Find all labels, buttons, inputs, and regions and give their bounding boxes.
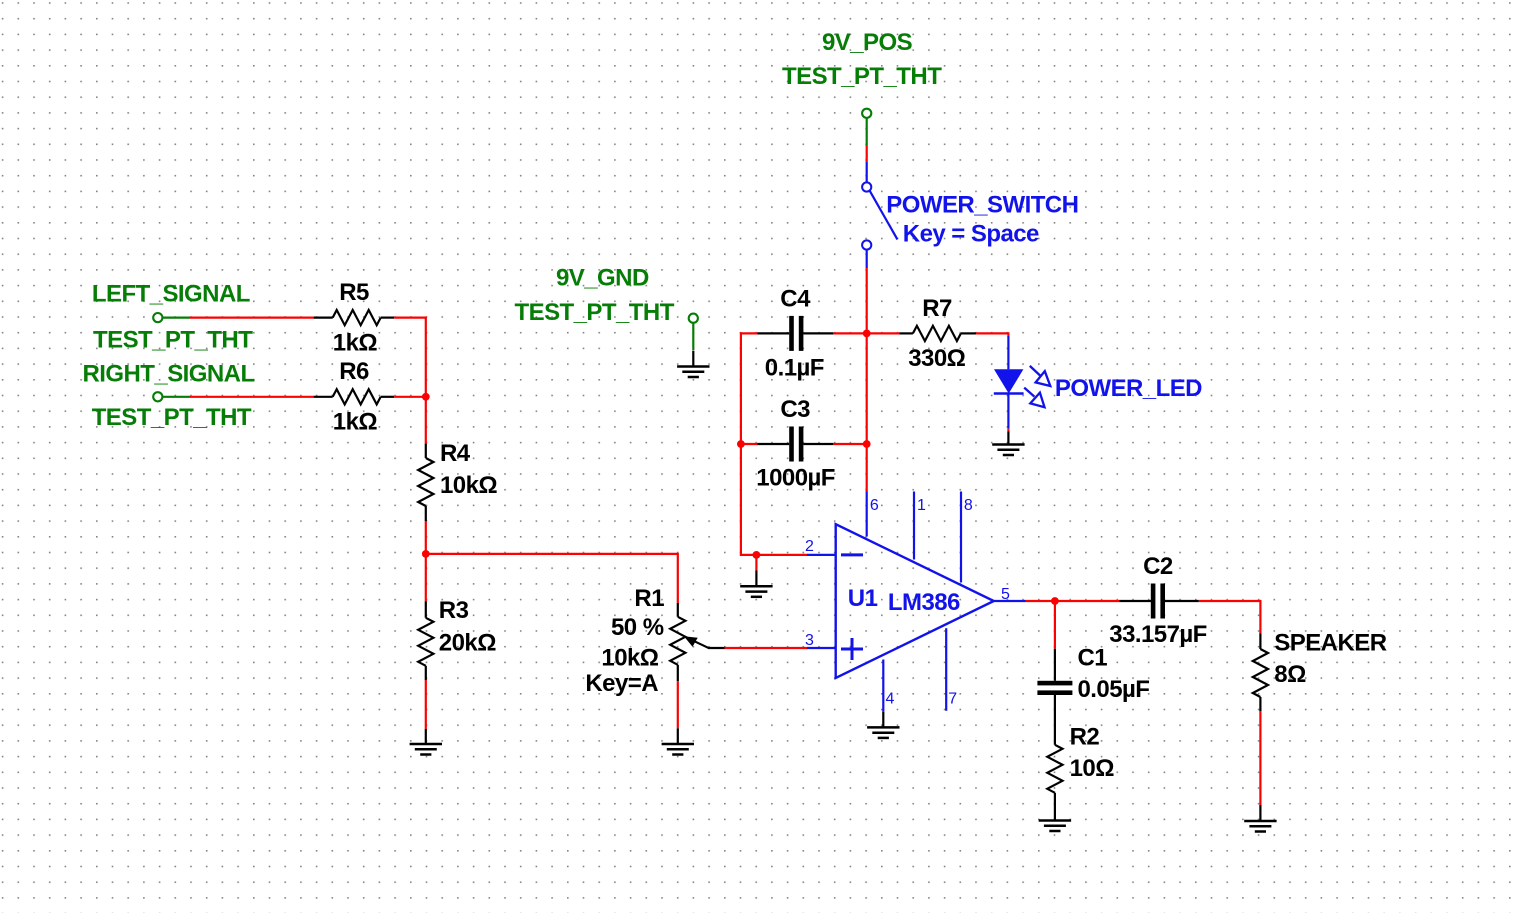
svg-text:POWER_LED: POWER_LED xyxy=(1055,375,1202,402)
label R2 xyxy=(1070,724,1100,751)
wire R5 to node A xyxy=(394,317,426,397)
ground (pin2 net) xyxy=(740,571,772,597)
potentiometer R1 xyxy=(670,603,685,681)
capacitor C4 xyxy=(741,316,867,351)
value 1kohm (R6) xyxy=(333,408,378,435)
svg-text:Key = Space: Key = Space xyxy=(903,221,1039,248)
svg-text:0.05µF: 0.05µF xyxy=(1078,676,1150,703)
ground (R3) xyxy=(410,729,442,755)
value 20kohm (R3) xyxy=(439,630,496,657)
value 10ohm (R2) xyxy=(1070,755,1115,782)
pin number 3 xyxy=(805,632,814,649)
label POWER_LED xyxy=(1055,375,1202,402)
svg-text:C4: C4 xyxy=(780,286,811,313)
pin number 7 xyxy=(948,691,957,708)
R1 wiper arrow xyxy=(684,636,725,648)
wire node B to R3 xyxy=(425,554,427,602)
svg-text:Key=A: Key=A xyxy=(585,670,658,697)
svg-text:LM386: LM386 xyxy=(888,589,960,616)
value 10kohm (R1) xyxy=(601,645,658,672)
svg-text:0.1µF: 0.1µF xyxy=(765,355,824,382)
junction pin2 ground tap xyxy=(753,551,761,559)
resistor R2 xyxy=(1047,745,1062,806)
wire LED to ground xyxy=(1007,429,1009,432)
ground (R2) xyxy=(1039,806,1071,831)
wire R3 to ground xyxy=(425,680,427,729)
svg-text:R4: R4 xyxy=(440,440,471,467)
switch POWER_SWITCH (SPST) xyxy=(862,162,897,268)
label R1 xyxy=(634,585,664,612)
ground (op-amp pin 4) xyxy=(867,712,899,738)
op-amp pin 8 lead (NC) xyxy=(960,492,962,583)
wire LEFT_SIGNAL to R5 xyxy=(190,317,314,319)
svg-text:10kΩ: 10kΩ xyxy=(440,472,497,499)
svg-text:POWER_SWITCH: POWER_SWITCH xyxy=(886,192,1078,219)
svg-text:SPEAKER: SPEAKER xyxy=(1274,630,1386,657)
label C3 xyxy=(780,396,810,423)
ground (9V_GND) xyxy=(677,351,709,377)
op-amp minus input marker xyxy=(841,553,863,556)
junction C3 right node xyxy=(863,440,871,448)
wire V+ node to R7 xyxy=(867,332,900,334)
svg-text:33.157µF: 33.157µF xyxy=(1109,621,1207,648)
wire pin5 to output node xyxy=(1026,600,1055,602)
ground (speaker) xyxy=(1244,805,1276,832)
label R3 xyxy=(439,597,469,624)
label R5 xyxy=(339,279,369,306)
svg-text:R5: R5 xyxy=(339,279,369,306)
label 9V_POS xyxy=(822,29,913,56)
pin number 5 xyxy=(1001,586,1010,603)
op-amp pin 1 lead (NC) xyxy=(913,492,915,560)
wire output node to C1 xyxy=(1054,601,1056,649)
label TEST_PT_THT (left) xyxy=(93,327,253,354)
label R7 xyxy=(922,295,952,322)
LED light arrow 2 xyxy=(1024,388,1044,408)
svg-text:C3: C3 xyxy=(780,396,810,423)
value 0.05uF xyxy=(1078,676,1150,703)
resistor R4 xyxy=(418,444,433,521)
svg-text:R7: R7 xyxy=(922,295,952,322)
label Key=A xyxy=(585,670,658,697)
label C4 xyxy=(780,286,811,313)
value 10kohm (R4) xyxy=(440,472,497,499)
svg-text:1kΩ: 1kΩ xyxy=(333,329,378,356)
junction V+ / C4 node xyxy=(863,330,871,338)
capacitor C1 xyxy=(1037,649,1072,745)
op-amp pin 4 lead xyxy=(882,660,884,712)
op-amp pin 7 lead (NC) xyxy=(945,628,947,711)
wire C-branch to opamp pin2 xyxy=(741,554,807,556)
wire testpoint to switch xyxy=(866,145,868,162)
op-amp pin 6 lead xyxy=(866,492,868,537)
value 1kohm (R5) xyxy=(333,329,378,356)
svg-text:20kΩ: 20kΩ xyxy=(439,630,496,657)
wire R7 to LED xyxy=(976,332,1008,336)
resistor R6 xyxy=(314,389,395,404)
wire R6 to node A xyxy=(394,396,426,398)
svg-text:9V_GND: 9V_GND xyxy=(556,264,649,291)
pin number 1 xyxy=(917,497,926,514)
wire RIGHT_SIGNAL to R6 xyxy=(190,396,314,398)
op-amp pin 3 lead xyxy=(807,647,836,649)
value 0.1uF xyxy=(765,355,824,382)
svg-text:8: 8 xyxy=(964,497,973,514)
test point 9V_GND (TP, green) xyxy=(689,314,698,350)
wire node B to R1 top xyxy=(426,553,678,603)
capacitor C2 xyxy=(1055,584,1261,619)
value 33.157uF xyxy=(1109,621,1207,648)
svg-text:1000µF: 1000µF xyxy=(756,465,835,492)
resistor R7 xyxy=(899,326,976,341)
wire R1 bottom to ground xyxy=(677,681,679,728)
pin number 6 xyxy=(870,497,879,514)
op-amp plus input marker xyxy=(841,638,863,660)
svg-text:TEST_PT_THT: TEST_PT_THT xyxy=(92,404,252,431)
svg-text:R3: R3 xyxy=(439,597,469,624)
resistor SPEAKER xyxy=(1253,634,1268,712)
wire R4 to node B xyxy=(425,521,427,554)
svg-text:2: 2 xyxy=(805,538,814,555)
ground (LED) xyxy=(992,432,1024,456)
wire C2 to speaker xyxy=(1259,600,1261,634)
wire switch to V+ node xyxy=(866,268,868,333)
svg-text:R6: R6 xyxy=(339,358,369,385)
svg-text:10kΩ: 10kΩ xyxy=(601,645,658,672)
capacitor C3 xyxy=(741,427,867,462)
label C1 xyxy=(1078,645,1108,672)
svg-text:C2: C2 xyxy=(1143,553,1173,580)
wire left branch vertical (C4 to C3 to pin2) xyxy=(740,332,742,556)
op-amp pin 2 lead xyxy=(807,554,836,556)
value 50 % xyxy=(611,614,664,641)
svg-text:5: 5 xyxy=(1001,586,1010,603)
svg-text:8Ω: 8Ω xyxy=(1274,661,1306,688)
label TEST_PT_THT (right) xyxy=(92,404,252,431)
svg-text:1kΩ: 1kΩ xyxy=(333,408,378,435)
LED light arrow 1 xyxy=(1030,366,1051,386)
label LM386 xyxy=(888,589,960,616)
label U1 xyxy=(848,585,878,612)
label TEST_PT_THT (9V_GND) xyxy=(515,299,675,326)
label Key = Space xyxy=(903,221,1039,248)
label C2 xyxy=(1143,553,1173,580)
label SPEAKER xyxy=(1274,630,1386,657)
svg-text:10Ω: 10Ω xyxy=(1070,755,1115,782)
svg-text:TEST_PT_THT: TEST_PT_THT xyxy=(93,327,253,354)
pin number 2 xyxy=(805,538,814,555)
label RIGHT_SIGNAL xyxy=(83,361,255,388)
svg-text:1: 1 xyxy=(917,497,926,514)
svg-text:LEFT_SIGNAL: LEFT_SIGNAL xyxy=(92,281,250,308)
junction node A (R5/R6/R4) xyxy=(422,393,430,401)
test point 9V_POS (TP, green) xyxy=(862,109,871,145)
label POWER_SWITCH xyxy=(886,192,1078,219)
wire R1 wiper to opamp pin3 xyxy=(725,647,808,649)
test point RIGHT_SIGNAL (TP, green) xyxy=(153,392,189,401)
svg-text:50 %: 50 % xyxy=(611,614,664,641)
junction C3 left node xyxy=(737,440,745,448)
value 8ohm (SPEAKER) xyxy=(1274,661,1306,688)
svg-text:R1: R1 xyxy=(634,585,664,612)
op-amp pin 5 lead (output) xyxy=(994,600,1026,602)
wire C3 node to opamp pin6 xyxy=(866,444,868,492)
svg-text:U1: U1 xyxy=(848,585,878,612)
op-amp U1 LM386 body xyxy=(836,524,994,678)
test point LEFT_SIGNAL (TP, green) xyxy=(153,313,189,322)
wire node A to R4 xyxy=(425,397,427,444)
wire ground tap xyxy=(755,555,757,571)
label R4 xyxy=(440,440,471,467)
label LEFT_SIGNAL xyxy=(92,281,250,308)
svg-text:TEST_PT_THT: TEST_PT_THT xyxy=(515,299,675,326)
pin number 8 xyxy=(964,497,973,514)
ground (R1) xyxy=(662,728,694,754)
label TEST_PT_THT (9V_POS) xyxy=(782,63,942,90)
svg-text:7: 7 xyxy=(948,691,957,708)
svg-text:3: 3 xyxy=(805,632,814,649)
svg-text:330Ω: 330Ω xyxy=(908,345,965,372)
svg-text:C1: C1 xyxy=(1078,645,1108,672)
resistor R5 xyxy=(314,310,395,325)
junction node B (R4/R3/wiper rail) xyxy=(422,550,430,558)
resistor R3 xyxy=(418,602,433,681)
svg-text:R2: R2 xyxy=(1070,724,1100,751)
wire V+ node down to C3 node xyxy=(866,333,868,444)
pin number 4 xyxy=(886,691,895,708)
value 1000uF xyxy=(756,465,835,492)
junction output node xyxy=(1051,597,1059,605)
svg-text:TEST_PT_THT: TEST_PT_THT xyxy=(782,63,942,90)
label 9V_GND xyxy=(556,264,649,291)
svg-text:RIGHT_SIGNAL: RIGHT_SIGNAL xyxy=(83,361,255,388)
svg-text:9V_POS: 9V_POS xyxy=(822,29,913,56)
label R6 xyxy=(339,358,369,385)
value 330ohm xyxy=(908,345,965,372)
LED POWER_LED xyxy=(994,336,1024,429)
svg-text:4: 4 xyxy=(886,691,895,708)
svg-text:6: 6 xyxy=(870,497,879,514)
wire speaker to ground xyxy=(1259,711,1261,805)
